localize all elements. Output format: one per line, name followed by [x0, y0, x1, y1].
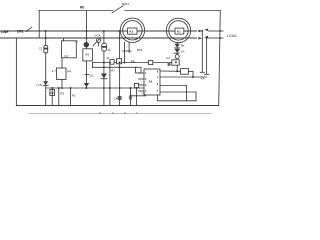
- cap blob on x119.6: [118, 96, 122, 100]
- transformer T1 label box: [175, 28, 184, 34]
- junction node (86.5,38): [86, 37, 88, 39]
- wire top rail left segment: [39, 10, 113, 12]
- junction node breaker pivot: [26, 30, 28, 32]
- svg-text:R8: R8: [131, 59, 135, 63]
- junction node (103.9,67.3): [103, 66, 105, 68]
- box b on W62.5: [117, 59, 122, 64]
- wire loop x196: [195, 92, 197, 101]
- resistor R5 box: [83, 49, 93, 61]
- wire vertical x86.5: [86, 11, 88, 88]
- IC bottom stub 1: [144, 94, 146, 97]
- svg-text:1: 1: [145, 72, 147, 75]
- junction node (58.8,88): [58, 87, 60, 89]
- junction node (103.9,88): [103, 87, 105, 89]
- IC right pin 7 wire: [160, 76, 207, 78]
- transformer T2 inner: [123, 21, 142, 40]
- transformer T2 outer: [120, 18, 144, 42]
- wire W62.5 left riser: [92, 63, 94, 68]
- IC bottom stub 2: [156, 95, 158, 101]
- wire vertical x136.6: [136, 88, 138, 106]
- svg-text:3: 3: [145, 84, 147, 87]
- svg-text:K2: K2: [129, 30, 133, 34]
- junction node (62,88): [61, 87, 63, 89]
- wire load T1: [209, 30, 224, 32]
- svg-text:R6: R6: [80, 6, 84, 10]
- svg-text:2: 2: [145, 78, 147, 81]
- svg-text:8: 8: [157, 70, 159, 73]
- svg-text:R3: R3: [60, 92, 64, 96]
- svg-text:BR1: BR1: [17, 29, 24, 33]
- IC left pin 1: [139, 72, 145, 74]
- wire loop y100.8: [157, 100, 196, 102]
- svg-text:VC4: VC4: [95, 34, 101, 38]
- neon lamp circle: [97, 38, 101, 42]
- junction node (45.7,31): [45, 30, 47, 32]
- svg-text:C8: C8: [50, 91, 54, 95]
- wire load T2: [209, 37, 224, 39]
- wire W68: [93, 66, 139, 68]
- capacitor C1: [44, 46, 48, 53]
- wire W96: [131, 95, 146, 97]
- transformer T1 inner: [169, 21, 188, 40]
- svg-text:4R3: 4R3: [137, 48, 143, 52]
- svg-text:1.7: 1.7: [52, 69, 57, 73]
- wire cyl top stub: [103, 31, 105, 43]
- wire W62.5: [93, 62, 172, 64]
- IC left pin 2: [139, 78, 145, 80]
- diode D5: [101, 74, 107, 79]
- junction node (86.3,88): [85, 87, 87, 89]
- cap blob near SCR: [168, 63, 171, 66]
- svg-text:R2: R2: [72, 94, 76, 98]
- cap blob on x129.5: [129, 96, 132, 99]
- wire neon bottom stub: [98, 43, 100, 47]
- svg-text:TEST: TEST: [121, 2, 129, 6]
- svg-text:5: 5: [157, 89, 159, 92]
- solenoid lead b: [206, 38, 208, 74]
- svg-text:+1: +1: [75, 40, 79, 44]
- wire B1 bottom stub: [61, 58, 63, 68]
- wire left border: [15, 38, 17, 106]
- transformer T1 outer: [166, 18, 190, 42]
- junction node (45.7,38): [45, 37, 47, 39]
- wire line L1: [0, 30, 197, 32]
- wire T2 lead a: [124, 42, 126, 62]
- junction node (119.6,62.5): [119, 62, 121, 64]
- box on W88 at x136.6: [134, 83, 138, 87]
- svg-text:7: 7: [157, 76, 159, 79]
- IC right pin 8 wire: [160, 70, 181, 72]
- wire T2 lead b: [128, 43, 130, 53]
- junction node (219.9,38): [219, 37, 221, 39]
- relay contact bottom arrows: [198, 37, 202, 40]
- junction dots: [26, 30, 221, 97]
- svg-text:KA: KA: [201, 76, 205, 80]
- wire R7 right stub: [189, 70, 194, 72]
- box c on W62.5: [149, 60, 153, 64]
- breaker blade: [26, 27, 32, 31]
- svg-text:4: 4: [145, 90, 147, 93]
- junction node (103.9,31): [103, 30, 105, 32]
- diode D6: [84, 83, 89, 87]
- solenoid lead a: [201, 31, 203, 72]
- capacitor C5 box: [136, 67, 141, 73]
- diode D2 under T1: [175, 49, 180, 53]
- capacitor C1 band: [44, 48, 48, 50]
- caption artifact line: [28, 112, 212, 114]
- capacitor C cylinder band: [102, 46, 106, 48]
- svg-text:LOAD: LOAD: [227, 34, 237, 38]
- junction node (202.3,31): [201, 30, 203, 32]
- IC right pin 5 wire: [160, 91, 196, 93]
- SCR box: [172, 60, 179, 65]
- IC left pin 3: [139, 84, 145, 86]
- svg-text:D6: D6: [90, 74, 94, 78]
- svg-text:C1: C1: [39, 47, 43, 51]
- LED D on x86.5: [84, 42, 89, 47]
- junction node (119.6,88): [119, 87, 121, 89]
- breaker post / rail corner drop: [38, 11, 40, 39]
- neon blade: [93, 38, 101, 46]
- wire vertical x45.7: [45, 31, 47, 106]
- junction node (220,31): [219, 30, 221, 32]
- wire R7 drop to pin7 wire: [192, 71, 194, 77]
- resistor R4 box: [57, 68, 67, 80]
- capacitor box B1: [62, 41, 77, 58]
- svg-text:C2: C2: [64, 54, 68, 58]
- wire W88: [46, 87, 144, 89]
- junction node (124.5,62.5): [124, 62, 126, 64]
- junction node (119.6,31): [119, 30, 121, 32]
- junction node (130.5,88): [130, 87, 132, 89]
- tick on x86.5: [85, 73, 89, 75]
- junction node (119.6,38): [119, 37, 121, 39]
- box a on W62.5: [110, 60, 114, 65]
- resistor R3 vertical: [58, 88, 60, 106]
- svg-text:6: 6: [157, 83, 159, 86]
- wire R4 bottom stub: [61, 80, 63, 89]
- svg-text:LINE: LINE: [1, 30, 9, 34]
- wire vertical x129.5: [130, 88, 132, 106]
- junction node (70.6,88): [70, 87, 72, 89]
- diode D1 under T1: [176, 43, 178, 54]
- junction node (136.6,88): [136, 87, 138, 89]
- wire C8 vertical: [51, 88, 53, 106]
- svg-text:C4: C4: [166, 56, 170, 60]
- svg-text:J6: J6: [107, 48, 111, 52]
- junction node (177.2,71.3): [176, 70, 178, 72]
- diode VD1: [43, 81, 48, 85]
- wire line L2: [0, 37, 197, 39]
- wire right border: [219, 11, 221, 106]
- wire SCR bottom stub: [176, 65, 178, 71]
- svg-text:K1: K1: [177, 30, 181, 34]
- junction node (119.6,67.3): [119, 66, 121, 68]
- relay contact top arrows: [198, 30, 202, 33]
- junction node (206.6,38): [206, 37, 208, 39]
- wire top rail right segment: [125, 10, 221, 12]
- wire loop x186.5: [186, 86, 188, 101]
- svg-text:VD: VD: [111, 68, 115, 72]
- junction node (86.5,31): [86, 30, 88, 32]
- wire vertical x103.4: [103, 51, 105, 105]
- junction node (52.2,88): [51, 87, 53, 89]
- capacitor C8 box: [50, 90, 55, 96]
- IC U1 box: [144, 69, 160, 95]
- IC right pin 6 wire: [160, 85, 187, 87]
- wire B1 top stub: [63, 38, 65, 41]
- svg-text:+VD: +VD: [36, 83, 43, 87]
- svg-text:R5: R5: [85, 52, 89, 56]
- svg-text:R4: R4: [67, 70, 71, 74]
- junction node (109.9,62.5): [109, 62, 111, 64]
- svg-text:J3: J3: [106, 56, 109, 60]
- wire bottom rail: [16, 105, 218, 107]
- svg-text:A1: A1: [149, 79, 153, 83]
- resistor R7 box: [181, 69, 189, 75]
- SCR circle: [175, 55, 179, 59]
- wire vertical x109.9: [109, 63, 111, 106]
- capacitor C cylinder: [102, 43, 107, 51]
- wire x138.5 stub: [138, 72, 140, 74]
- junction node (109.9,88): [109, 87, 111, 89]
- IC left pin 4: [139, 90, 145, 92]
- junction node (103.9,62.5): [103, 62, 105, 64]
- SCR box dot: [175, 61, 177, 63]
- svg-text:Bx: Bx: [181, 44, 185, 48]
- junction node (130.5,95.8): [130, 95, 132, 97]
- svg-text:CA: CA: [114, 97, 118, 101]
- switch TEST blade: [112, 6, 123, 13]
- wire vertical x119.6: [119, 31, 121, 106]
- wire vertical x70.6: [70, 88, 72, 106]
- transformer T2 label box: [128, 28, 137, 34]
- junction node (193,77): [192, 76, 194, 78]
- svg-text:Dx: Dx: [181, 50, 185, 54]
